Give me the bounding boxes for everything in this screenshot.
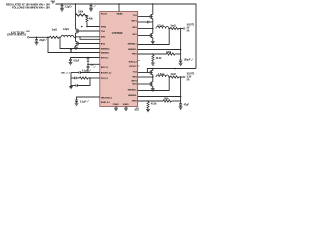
svg-text:BST1: BST1 (132, 21, 138, 23)
transistor Q1 boost top MOSFET (76, 29, 79, 34)
ground under CSS (75, 103, 79, 105)
svg-text:EXTVCC: EXTVCC (129, 66, 137, 68)
svg-text:4.7μH: 4.7μH (157, 24, 164, 27)
svg-text:SENSE2+: SENSE2+ (101, 48, 111, 50)
transistor Q4 ch1 bottom MOSFET (150, 33, 153, 38)
svg-text:ITH1,2,3: ITH1,2,3 (101, 78, 108, 80)
resistor RS3 2mohm (170, 76, 178, 78)
svg-text:47μF: 47μF (184, 104, 190, 107)
node ch2 drain rail junction (174, 68, 176, 70)
footnote check mark near COUT1 (191, 59, 193, 61)
wire SGND lead (125, 106, 127, 108)
ground under PGND (114, 108, 118, 110)
ground under SGND (124, 108, 128, 110)
node ITH (89, 77, 91, 79)
wire SENSE2- routing (60, 37, 100, 48)
svg-text:5A: 5A (187, 29, 190, 32)
wire BG2 gate (78, 43, 100, 45)
ground under COUT1 (179, 63, 183, 65)
transistor Q2 boost bottom MOSFET (76, 41, 79, 46)
wire VOUT1 vertical (180, 29, 182, 61)
svg-text:BST1,2,3: BST1,2,3 (101, 67, 108, 69)
terminal VIN (27, 36, 29, 38)
wire EXTVCC pin (88, 63, 100, 65)
resistor ITH zigzag (80, 77, 88, 79)
node ITH ground (70, 85, 72, 87)
transistor Q6 ch2 bottom MOSFET (150, 82, 153, 87)
node diode anode (87, 57, 89, 59)
capacitor C INTVCC plates (69, 59, 72, 60)
svg-text:40.2k: 40.2k (156, 57, 162, 60)
node VFB3 tap (147, 100, 149, 102)
terminal VOUT3 (183, 76, 185, 78)
wire VFB3 (138, 100, 163, 102)
svg-text:2mΩ: 2mΩ (171, 74, 176, 76)
ground under Q2 (74, 47, 78, 49)
diode DB2 (87, 58, 90, 65)
svg-text:VBIAS: VBIAS (51, 0, 56, 3)
wire SENSE1+ routing (138, 29, 170, 45)
wire SENSE3- routing (138, 96, 181, 98)
svg-text:40.2k: 40.2k (151, 103, 157, 106)
svg-text:VFB1: VFB1 (132, 53, 138, 55)
svg-text:40k: 40k (89, 18, 94, 21)
wire Q3 drain to rail (152, 4, 154, 15)
svg-text:DB1, 2, 3: DB1, 2, 3 (61, 73, 70, 75)
wire ITH branch lower left (71, 85, 76, 87)
wire BOOST1 (138, 21, 148, 23)
capacitor C1 plates (61, 6, 64, 7)
wire top rail VBIAS (56, 4, 197, 69)
svg-text:VOUT1: VOUT1 (187, 24, 195, 26)
resistor RS2 3mohm zigzag (50, 36, 59, 38)
svg-text:3mΩ: 3mΩ (52, 29, 57, 31)
node SENSE1+ (168, 28, 170, 30)
svg-text:4.7μF: 4.7μF (73, 59, 80, 62)
wire VFB1 (138, 53, 167, 55)
capacitor CIN plates (35, 40, 38, 41)
svg-text:SENSE1+: SENSE1+ (128, 43, 138, 45)
svg-text:RUN1,2,3: RUN1,2,3 (101, 102, 111, 104)
capacitor C2 bottom lead (90, 7, 92, 9)
wire ITH branch lower right (77, 78, 90, 86)
svg-text:0.1μF: 0.1μF (80, 101, 87, 103)
capacitor C2 plates (90, 6, 93, 7)
resistor RFB3T 100k horizontal (163, 100, 171, 102)
ground under C1 (60, 9, 64, 11)
wire L1 to RS1 (169, 28, 170, 30)
ground under COUT3 (179, 107, 183, 109)
svg-text:LTC7815: LTC7815 (112, 31, 123, 35)
wire ch2 drain rail (147, 69, 196, 73)
wire PGND lead (115, 106, 117, 108)
wire Q1 source to SW2 (75, 33, 77, 37)
svg-text:SGND: SGND (123, 104, 129, 106)
node SW1 (152, 28, 154, 30)
capacitor COUT1 plates (179, 60, 182, 61)
svg-text:SENSE2-: SENSE2- (101, 52, 110, 54)
node on VFB2 wire (81, 26, 83, 28)
footnote check mark near CB3 label (89, 69, 91, 71)
wire Q4 drain (152, 29, 154, 34)
resistor RFB1T 100k horizontal (167, 53, 175, 55)
transistor Q3 ch1 top MOSFET (150, 14, 153, 19)
node sense- takeoff (59, 37, 61, 39)
svg-text:1.2μH: 1.2μH (63, 29, 70, 31)
capacitor ITH series bars (75, 77, 76, 79)
svg-text:100k: 100k (78, 11, 84, 13)
capacitor C2 lead (90, 4, 92, 6)
svg-text:RUN1,2,3: RUN1,2,3 (129, 61, 137, 63)
wire SENSE1- routing (138, 49, 181, 51)
ground under RFB3 (146, 109, 150, 111)
capacitor CIN bottom lead (36, 41, 38, 43)
ground under CIN (35, 43, 39, 45)
IC U1 LTC7815 body (100, 12, 138, 107)
wire Q2 source (75, 46, 77, 48)
transistor Q5 ch2 top MOSFET (150, 70, 153, 75)
wire R2 to VFB2 pin (87, 22, 100, 26)
node divider tap (86, 26, 88, 28)
inductor L2 1.2uH coil (61, 35, 74, 37)
resistor RFB1 40.2k vertical (152, 55, 154, 61)
wire SW3 (138, 76, 153, 78)
wire BOOST2 jog (80, 37, 100, 40)
node VOUT1 (180, 28, 182, 30)
footnote check marks near strap cap (93, 66, 95, 68)
svg-text:SENSE3-: SENSE3- (128, 95, 137, 97)
ground under Q6 (151, 89, 155, 91)
wire VIN input (29, 36, 49, 38)
capacitor C boost strap plates (87, 66, 90, 67)
pin stub NC2 (138, 65, 140, 67)
capacitor CSS lead (76, 101, 78, 103)
wire CB1 to SW (149, 21, 153, 23)
node input cap (36, 37, 38, 39)
wire SW1 (138, 28, 153, 30)
ground under RFB1 (151, 63, 155, 65)
svg-text:REGULATED AT 18V WHEN VIN > 18: REGULATED AT 18V WHEN VIN > 18V (6, 4, 50, 7)
wire Q3 source to SW1 (152, 19, 154, 29)
svg-text:18V: 18V (52, 3, 55, 5)
wire L3 to RS3 (169, 76, 170, 78)
ground under C2 (89, 9, 93, 11)
footnote check mark near CIN (45, 38, 47, 40)
svg-text:1.5μH: 1.5μH (158, 74, 165, 76)
svg-text:150μF: 150μF (184, 60, 191, 62)
node SW3 (152, 76, 154, 78)
node rail-cap2 (90, 3, 92, 5)
svg-text:TRACK/SS1,2: TRACK/SS1,2 (101, 96, 112, 99)
wire BOOST3 right segment (80, 72, 99, 74)
wire ITH mid segment (76, 77, 79, 79)
svg-text:SENSE3+: SENSE3+ (128, 90, 138, 92)
wire RFB1 lead (152, 61, 154, 63)
resistor R2 40k vertical zigzag (86, 15, 88, 22)
wire 100k to VOUT3 node (171, 100, 180, 102)
wire SS pin (77, 97, 100, 100)
svg-text:100k: 100k (164, 99, 170, 101)
inductor L3 coil (156, 75, 169, 77)
wire 100k to VOUT node (175, 53, 181, 55)
wire Q2 drain (75, 37, 77, 41)
wire SENSE2+ routing (48, 37, 100, 52)
node SW2 (75, 37, 77, 39)
svg-text:0.1μF: 0.1μF (82, 71, 89, 73)
svg-text:BOOST1,2,3: BOOST1,2,3 (101, 72, 111, 74)
wire BG1 (138, 35, 151, 37)
capacitor ITH parallel bars (76, 84, 77, 86)
svg-text:VFB2: VFB2 (101, 26, 107, 28)
wire Q4 source (152, 38, 154, 42)
node rail-boost-drain (75, 3, 77, 5)
wire coil to SW2 node (74, 36, 76, 38)
wire ITH branch upper left (71, 77, 75, 79)
wire VBIAS pin vertical (118, 4, 120, 12)
wire SW2 to pin (76, 36, 100, 38)
svg-text:BST3: BST3 (132, 81, 138, 83)
wire RFB3 lead (147, 108, 149, 109)
capacitor COUT3 lead (180, 105, 182, 107)
wire INTVCC (71, 58, 100, 60)
capacitor C1 bottom lead (61, 7, 63, 9)
wire boost drain vertical (75, 4, 77, 29)
wire Q5 source (152, 75, 154, 78)
node rail-VBIAS pin (118, 3, 120, 5)
ground under INTVCC cap (69, 63, 73, 65)
capacitor CB3 bars (79, 71, 80, 73)
wire Q6 drain (152, 77, 154, 82)
svg-text:(START-UP ABOVE 5V): (START-UP ABOVE 5V) (7, 34, 26, 37)
capacitor C1 2.2uF lead (61, 4, 63, 6)
wire BOOST3 left segment (71, 72, 79, 74)
footnote check mark near CSS (87, 100, 89, 102)
node VOUT3 (180, 76, 182, 78)
ground under Q4 (151, 41, 155, 43)
node rail-cap1 (61, 3, 63, 5)
wire ITH vertical drop (70, 73, 72, 87)
svg-text:PGND: PGND (113, 104, 119, 106)
svg-text:5V: 5V (187, 27, 190, 29)
wire TG2 gate (78, 30, 100, 32)
pin stub NC1 (138, 60, 140, 62)
svg-text:INTVCC: INTVCC (101, 57, 109, 59)
terminal VOUT1 (183, 28, 185, 30)
svg-text:VBIAS: VBIAS (116, 13, 123, 16)
wire ITH to pin (88, 77, 100, 79)
node SENSE1- VOUT (180, 49, 182, 51)
wire BG3 (138, 83, 151, 85)
node SENSE3- (180, 96, 182, 98)
wire Q6 source (152, 86, 154, 89)
capacitor CSS plates (75, 100, 78, 101)
svg-text:PLLIN: PLLIN (101, 14, 107, 16)
node SENSE3+ (168, 76, 170, 78)
capacitor CB1 bars (147, 21, 148, 23)
svg-text:FOLLOWS VIN WHEN VIN < 18V: FOLLOWS VIN WHEN VIN < 18V (12, 7, 51, 10)
svg-text:SENSE1-: SENSE1- (128, 49, 137, 51)
node diode cathode (87, 64, 89, 66)
wire VOUT3 vertical (180, 77, 182, 104)
svg-text:3.3V: 3.3V (187, 77, 192, 79)
capacitor sense filter leads (70, 49, 72, 53)
svg-text:VIN: VIN (26, 31, 30, 33)
capacitor COUT1 lead (180, 61, 182, 63)
wire TG1 (138, 16, 151, 18)
resistor R1 100k horizontal zigzag (76, 14, 88, 16)
node strap cap joins (87, 72, 88, 73)
svg-text:VFB3: VFB3 (132, 100, 138, 102)
node VFB1 tap (152, 53, 154, 55)
resistor RS1 5mohm (170, 27, 178, 29)
svg-text:VOUT2: VOUT2 (187, 74, 195, 76)
capacitor sense filter plates (70, 50, 72, 51)
inductor L1 coil (156, 27, 169, 29)
svg-text:100k: 100k (166, 52, 172, 54)
wire RS3 to VOUT3 (179, 76, 184, 78)
wire RS1 to VOUT1 (179, 28, 184, 30)
node ch2 drain (152, 68, 154, 70)
wire SENSE3+ routing (138, 77, 170, 91)
wire Q5 drain (152, 69, 154, 71)
capacitor CIN lead (36, 37, 38, 39)
footnote check mark near C2 (93, 5, 95, 7)
footnote check mark near C1 (70, 6, 72, 8)
ground under ITH (69, 86, 73, 88)
svg-text:5mΩ: 5mΩ (171, 25, 176, 27)
node rail-ch1 drain (152, 3, 154, 5)
wire TG3 (138, 72, 151, 74)
capacitor C boost strap leads (87, 64, 89, 72)
capacitor COUT3 plates (179, 104, 182, 105)
resistor RFB3 40.2k vertical (147, 102, 149, 108)
svg-text:22μF: 22μF (39, 40, 45, 42)
svg-text:5A: 5A (187, 79, 190, 82)
capacitor C INTVCC lead (70, 61, 72, 63)
node sense+ takeoff (47, 37, 49, 39)
